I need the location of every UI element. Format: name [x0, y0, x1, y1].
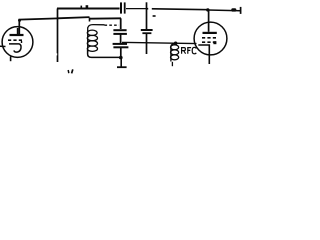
C3-C4 link	[120, 35, 122, 44]
tube V1 filament lead stub	[10, 56, 12, 61]
tube V1 plate	[10, 28, 24, 35]
node corner dot V1 plate	[18, 19, 21, 22]
C4 bottom lead	[120, 48, 122, 57]
wire top bus left	[57, 7, 120, 9]
wire B+ riser	[57, 9, 59, 63]
choke RFC loops	[171, 43, 179, 61]
wire tank bottom stub down	[120, 58, 122, 67]
capacitor C2 coupling: top lead	[146, 2, 148, 29]
capacitor C2 bottom lead	[146, 34, 148, 54]
tube V2 grid	[202, 38, 217, 44]
tube V1 grid	[8, 40, 24, 43]
choke RFC tail	[171, 62, 173, 66]
tube V1 cathode hook	[9, 44, 21, 52]
terminal bar bottom	[117, 66, 127, 68]
wire corner down to C3	[120, 18, 122, 29]
tube V2 cathode	[198, 45, 209, 64]
tube V2 plate	[203, 10, 217, 33]
speck near C2	[153, 15, 156, 17]
label RFC	[182, 47, 197, 53]
coil L1 top lead	[88, 25, 105, 28]
wire plate V1 to riser	[19, 18, 57, 34]
coil L1 loops	[87, 27, 97, 52]
caption marks	[67, 70, 70, 73]
bump node	[231, 8, 236, 11]
coil L1 bottom lead / tank bottom wire	[88, 50, 121, 57]
terminal bar	[240, 7, 242, 14]
capacitor C4 tank lower	[113, 44, 129, 47]
capacitor C1 plates	[121, 2, 125, 13]
junction stub to coil	[89, 18, 91, 22]
scan break on riser	[56, 53, 57, 55]
tube V1 grid lead	[0, 45, 6, 47]
wire top bus to terminal	[208, 9, 240, 12]
wire top bus right	[146, 9, 208, 10]
capacitor C3 tank upper	[113, 30, 127, 34]
wire top bus middle	[126, 8, 147, 10]
wire tank top	[58, 17, 90, 18]
tube V1 envelope	[2, 27, 33, 58]
junction node RFC	[174, 42, 178, 46]
wire grid tap to V2	[122, 42, 197, 43]
junction node tank bottom	[119, 56, 123, 60]
scan speck on bus	[81, 6, 83, 8]
junction node above V2	[206, 8, 209, 11]
tube V2 envelope	[194, 22, 227, 55]
scan break on bus	[148, 7, 152, 10]
capacitor C2 plates	[141, 30, 153, 33]
